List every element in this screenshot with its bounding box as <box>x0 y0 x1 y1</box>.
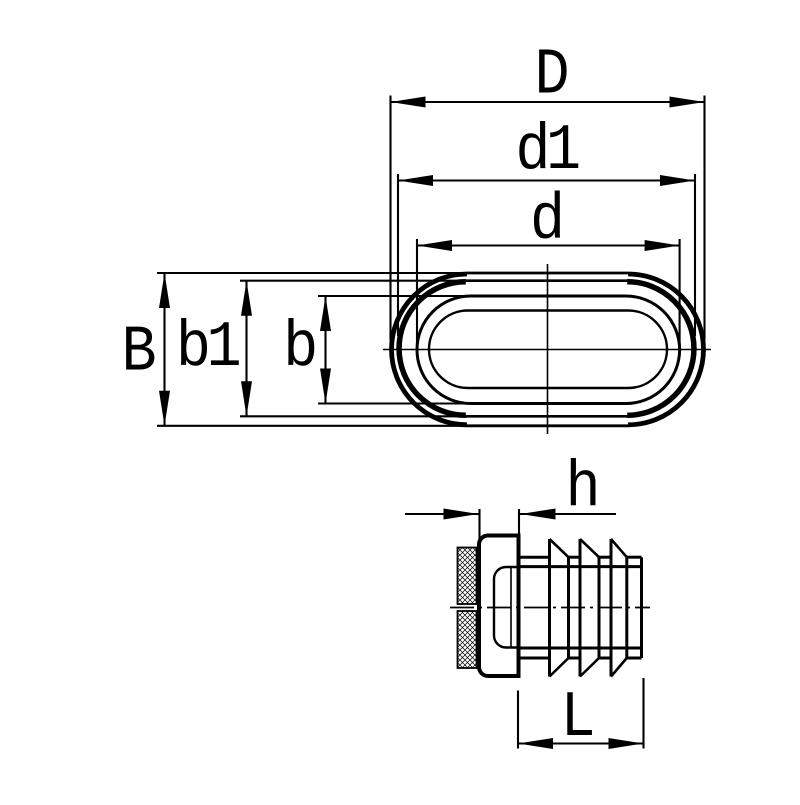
dash-dot centerline of side view <box>450 607 650 609</box>
extension line right of d1 <box>694 174 696 336</box>
fin 3 right edge <box>625 557 628 658</box>
inner stadium d x b <box>417 296 680 404</box>
thick right arc of d1 stadium <box>627 282 694 416</box>
body right end edge <box>640 557 643 658</box>
arrowhead h left <box>444 509 479 520</box>
arrowhead B top <box>159 273 170 308</box>
extension line top of B <box>157 272 480 274</box>
extension line top of b1 <box>240 280 485 282</box>
fin 1 bottom slant <box>550 658 569 677</box>
fin 1 top slant <box>550 539 569 557</box>
fin 2 right edge <box>598 557 601 658</box>
hatched flange washer upper half <box>458 548 477 605</box>
arrowhead d1 right <box>660 175 695 186</box>
arrowhead d left <box>417 240 452 251</box>
svg-text:b: b <box>283 311 318 385</box>
extension line bottom of b <box>318 402 495 404</box>
extension line left of d1 <box>397 174 399 336</box>
extension line right of D <box>703 96 705 341</box>
bottom land segments <box>519 657 550 660</box>
horizontal centerline of oval <box>383 349 711 351</box>
vertical centerline of oval <box>547 264 549 434</box>
arrowhead b bottom <box>320 369 331 404</box>
flange body stadium d1 x b1 <box>398 281 695 417</box>
hatched flange washer lower half <box>458 611 477 668</box>
dimension b1 <box>176 281 485 417</box>
dimension line b <box>324 296 326 404</box>
arrowhead D left <box>391 97 426 108</box>
outer flange stadium D x B <box>391 273 705 426</box>
dimension b <box>283 296 495 404</box>
dimension B <box>121 273 480 426</box>
extension line left of h <box>478 509 480 546</box>
dimension line L <box>518 742 644 744</box>
svg-text:d: d <box>530 184 565 258</box>
dimension d1 <box>398 114 695 336</box>
dimension line D <box>391 101 705 103</box>
extension line left of d <box>416 239 418 345</box>
doubled left arc of outer stadium <box>392 274 467 424</box>
dimension L <box>518 678 644 755</box>
fin 2 left edge <box>579 539 582 677</box>
extension line bottom of b1 <box>240 415 485 417</box>
leader line right of h <box>520 513 616 515</box>
svg-text:D: D <box>534 39 569 113</box>
arrowhead b1 top <box>241 281 252 316</box>
innermost opening stadium <box>429 311 667 389</box>
thick left arc of d1 stadium <box>399 282 466 416</box>
svg-text:d1: d1 <box>515 114 579 188</box>
dimension D <box>391 39 705 340</box>
extension line bottom of B <box>157 425 480 427</box>
fin 2 top slant <box>580 539 599 557</box>
arrowhead B bottom <box>159 391 170 426</box>
dimension line b1 <box>245 281 247 417</box>
svg-text:L: L <box>560 681 595 755</box>
dimension h <box>405 451 616 546</box>
fin 3 top slant <box>611 539 627 557</box>
fin 2 bottom slant <box>580 658 599 677</box>
extension line left of L <box>517 691 519 749</box>
top land segments <box>519 556 550 559</box>
arrowhead d right <box>645 240 680 251</box>
svg-text:b1: b1 <box>176 311 240 385</box>
arrowhead D right <box>670 97 705 108</box>
arrowhead L right <box>609 738 644 749</box>
svg-text:h: h <box>565 451 600 525</box>
extension line right of d <box>679 239 681 345</box>
dimension line B <box>163 273 165 426</box>
inner socket cavity <box>494 567 519 648</box>
arrowhead b top <box>320 296 331 331</box>
arrowhead L left <box>518 738 553 749</box>
extension line left of D <box>389 96 391 341</box>
socket mouth line <box>510 567 512 648</box>
doubled right arc of outer stadium <box>628 274 703 424</box>
extension line top of b <box>318 295 495 297</box>
body core bottom edge <box>519 647 642 650</box>
body core top edge <box>519 565 642 568</box>
arrowhead h right <box>521 509 556 520</box>
dimension d <box>417 184 680 345</box>
arrowhead d1 left <box>398 175 433 186</box>
fin 1 left edge <box>548 539 551 677</box>
fin 3 bottom slant <box>611 658 627 677</box>
dimension line d1 <box>398 179 695 181</box>
extension line right of L <box>642 678 644 749</box>
leader line left of h <box>405 513 480 515</box>
dimension line d <box>417 244 680 246</box>
fin 1 right edge <box>567 557 570 658</box>
cap head outline <box>479 536 519 677</box>
extension line right of h <box>518 509 520 535</box>
svg-text:B: B <box>121 316 156 390</box>
fin 3 left edge <box>610 539 613 677</box>
arrowhead b1 bottom <box>241 381 252 416</box>
